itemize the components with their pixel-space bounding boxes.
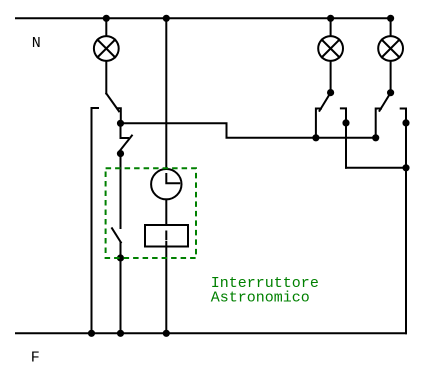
wire node A horizontal run xyxy=(121,123,376,138)
wire SW4 to relay contact K1 xyxy=(120,154,122,228)
junction at SW2 left throw xyxy=(313,135,318,140)
relay contact K1 lever xyxy=(112,228,121,242)
wire clock to relay coil xyxy=(165,199,167,225)
svg-text:F: F xyxy=(31,349,40,366)
wire SW2 right throw to right return xyxy=(346,167,406,169)
switch SW3 lever (two-way deviatore) xyxy=(380,93,391,111)
svg-text:Astronomico: Astronomico xyxy=(211,289,310,306)
lamp L3 xyxy=(378,36,403,61)
green enclosure (interruttore astronomico dashed box) xyxy=(106,168,196,258)
wire N rail to lamp L3 xyxy=(390,18,392,36)
junction SW3 common xyxy=(388,90,393,95)
switch SW3 left throw contact stub xyxy=(376,109,381,138)
junction on SW3 right throw wire xyxy=(403,120,408,125)
switch SW1 left throw contact stub xyxy=(92,108,99,110)
relay coil K1 xyxy=(145,225,188,247)
switch SW2 left throw contact stub xyxy=(316,109,321,138)
clock timer face U1 xyxy=(151,169,181,199)
wire N rail to clock xyxy=(165,18,167,169)
junction timer branch on N rail xyxy=(164,16,169,21)
wire N rail to lamp L2 xyxy=(330,18,332,36)
switch SW4 upper terminal (manual interruttore on left branch) xyxy=(121,123,129,138)
junction lamp L2 on N rail xyxy=(328,16,333,21)
junction end of run at SW3 left throw xyxy=(373,135,378,140)
switch SW1 lever (two-way deviatore, left) xyxy=(106,94,119,112)
label Interruttore Astronomico xyxy=(211,275,319,306)
junction K1 lower node on green box edge xyxy=(118,255,123,260)
junction L1 branch on N rail xyxy=(104,16,109,21)
wire relay contact K1 lower terminal xyxy=(120,242,122,333)
wire relay coil to F rail xyxy=(165,242,167,333)
junction coil branch on F rail xyxy=(164,331,169,336)
lamp L2 xyxy=(318,36,343,61)
lamp L1 xyxy=(94,36,119,61)
wire N rail xyxy=(16,17,391,19)
junction lamp L3 on N rail xyxy=(388,16,393,21)
svg-text:N: N xyxy=(32,35,41,52)
junction node A (SW1 right throw / line to deviatori) xyxy=(118,121,123,126)
junction on SW2 right throw wire xyxy=(343,120,348,125)
wire lamp L1 to switch SW1 xyxy=(105,61,107,94)
switch SW3 right throw contact stub xyxy=(401,109,406,334)
switch SW4 lever xyxy=(118,136,132,154)
wire lamp L2 to switch SW2 xyxy=(330,61,332,93)
wire F rail xyxy=(16,332,406,334)
junction right return at y168 xyxy=(403,165,408,170)
junction SW4 lower terminal xyxy=(118,151,123,156)
junction left branch on F rail xyxy=(118,331,123,336)
switch SW1 right throw contact stub xyxy=(117,108,121,122)
wire lamp L3 to switch SW3 xyxy=(390,61,392,93)
wire left return (SW1 left throw to F rail) xyxy=(91,109,93,333)
junction SW2 common xyxy=(328,90,333,95)
wire lamp L1 drop from N rail xyxy=(105,18,107,36)
switch SW2 right throw contact stub xyxy=(341,108,346,167)
switch SW2 lever (two-way deviatore) xyxy=(320,93,331,111)
junction SW1 left throw on F rail xyxy=(89,331,94,336)
